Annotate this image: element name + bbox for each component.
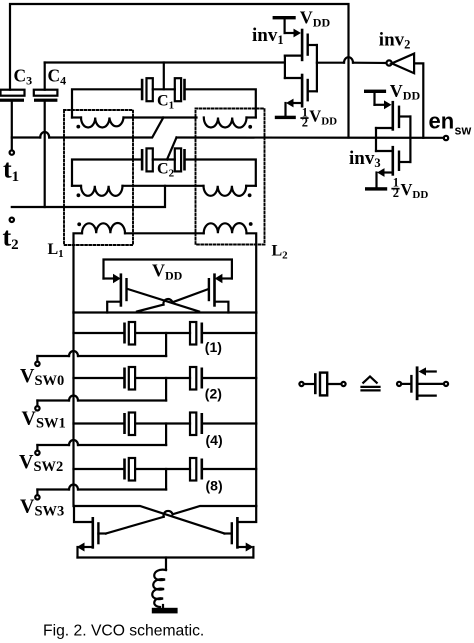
transistor inv1 NMOS — [286, 74, 317, 116]
wire inv3 gate bar — [376, 128, 392, 151]
terminal t1 — [10, 150, 14, 154]
wire C2 mid diagonal up to inv3 wire — [167, 138, 177, 160]
dotted box inductor L1 — [64, 110, 133, 245]
svg-text:C3: C3 — [14, 66, 33, 88]
dotted box inductor L2 — [196, 109, 265, 245]
wire inv1 output vertical — [316, 45, 318, 91]
wire VSW2 feed with hop — [37, 440, 166, 451]
svg-text:VSW0: VSW0 — [20, 365, 64, 389]
switched capacitor row 1 — [74, 322, 257, 356]
inductor tank1 left coil — [72, 118, 197, 128]
node dot tank2 right — [248, 193, 252, 197]
wire C2 to inv3 input and en_sw — [177, 136, 444, 139]
node dot row3 right — [249, 222, 253, 226]
svg-text:VDD: VDD — [390, 81, 421, 103]
wire inv1 output with hop over top-border vertical — [317, 57, 387, 63]
inductor tank2 right coil — [204, 186, 256, 196]
svg-text:VDD: VDD — [300, 8, 331, 30]
label half VDD inv3 — [391, 176, 428, 201]
wire tail down — [165, 558, 167, 571]
transistor inv3 NMOS — [377, 146, 411, 187]
wire top border from C3 up and across to right — [10, 4, 349, 138]
transistor M4 NMOS right of bottom cross-coupled pair — [224, 506, 256, 558]
ground — [152, 605, 178, 613]
wire inv2 to en_sw line — [414, 63, 423, 137]
label en_sw — [429, 108, 472, 137]
svg-text:(4): (4) — [206, 432, 223, 448]
capacitor C2 — [141, 148, 186, 171]
supply half-VDD bar inv1 — [275, 116, 296, 119]
wire C4 to inv1 input — [45, 61, 285, 63]
wire cross-couple ascending diagonal with hop — [137, 289, 209, 312]
node dot row3 left — [77, 222, 81, 226]
legend MOS varactor symbol — [397, 366, 448, 400]
svg-text:(8): (8) — [206, 478, 223, 494]
svg-text:C2: C2 — [157, 161, 175, 180]
wire C1 mid up to input wire — [163, 63, 165, 90]
inductor tank2 left coil — [72, 186, 204, 196]
wire cap-bank right rail — [255, 313, 257, 507]
svg-text:VSW3: VSW3 — [20, 496, 64, 520]
terminal VSW2 — [35, 451, 39, 455]
svg-text:t2: t2 — [3, 223, 19, 254]
svg-text:en: en — [429, 108, 455, 133]
svg-text:Fig. 2. VCO schematic.: Fig. 2. VCO schematic. — [43, 623, 204, 640]
node dot tank1 left — [76, 125, 80, 129]
inductor tail coil — [152, 570, 166, 607]
switched capacitor row 3 — [74, 413, 257, 446]
transistor inv1 PMOS — [285, 19, 317, 61]
inductor tank1 right coil — [204, 118, 256, 128]
symbol equivalence — [362, 377, 380, 391]
terminal VSW1 — [35, 406, 39, 410]
svg-text:VSW2: VSW2 — [19, 451, 63, 475]
svg-text:(2): (2) — [205, 386, 222, 402]
supply half-VDD bar inv3 — [365, 187, 387, 190]
svg-text:sw: sw — [455, 123, 472, 137]
svg-text:(1): (1) — [205, 339, 222, 355]
capacitor C1 — [141, 78, 186, 101]
node dot tank1 right — [248, 125, 252, 129]
wire VDD box of cross-coupled PMOS pair — [104, 260, 232, 279]
capacitor C4 — [34, 63, 58, 208]
wire t1 horizontal with hop over C4 lead, diagonal up to tank1 center — [12, 118, 164, 138]
wire core rail below PMOS pair — [74, 311, 257, 313]
svg-text:inv2: inv2 — [379, 30, 411, 52]
inductor row3 left coil — [74, 223, 204, 312]
wire VSW0 feed with hop — [37, 351, 166, 361]
terminal VSW3 — [35, 495, 39, 499]
svg-text:VDD: VDD — [152, 261, 183, 283]
wire bottom source rail — [78, 556, 254, 558]
wire inv3 output vertical — [409, 117, 411, 163]
terminal t2 — [10, 218, 14, 222]
switched capacitor row 4 — [74, 458, 257, 490]
wire cap-bank left rail — [72, 313, 74, 507]
inverter inv2 triangle — [392, 54, 414, 74]
svg-text:inv1: inv1 — [252, 25, 284, 47]
wire bottom cross-couple: left gate to right drain with hop — [106, 506, 256, 534]
label half VDD inv1 — [300, 106, 337, 130]
capacitor C3 — [0, 90, 25, 151]
svg-text:L1: L1 — [48, 241, 64, 260]
inverter inv2 bubble — [387, 60, 392, 65]
terminal en_sw — [444, 136, 448, 140]
svg-text:VDD: VDD — [401, 180, 429, 201]
svg-text:C4: C4 — [48, 66, 67, 88]
wire t2 horizontal to tank2 center tap — [12, 186, 165, 207]
transistor M1 PMOS left of cross-coupled pair — [104, 273, 128, 312]
svg-text:VDD: VDD — [309, 107, 337, 128]
tank1 rail — [72, 89, 256, 117]
terminal VSW0 — [35, 362, 39, 366]
svg-text:VSW1: VSW1 — [22, 408, 66, 432]
node dot tank2 left — [77, 193, 81, 197]
switched capacitor row 2 — [74, 367, 257, 401]
wire cross-couple descending diagonal — [128, 289, 199, 312]
legend capacitor symbol — [299, 373, 345, 396]
wire VSW3 feed with hop — [37, 485, 166, 496]
supply VDD bar inv3 — [364, 90, 386, 93]
wire bottom cross-couple: left drain to right gate — [74, 506, 224, 534]
svg-text:L2: L2 — [272, 243, 289, 262]
inductor row3 right coil — [204, 223, 257, 312]
wire VSW1 feed with hop — [37, 396, 166, 407]
supply VDD bar inv1 — [273, 16, 296, 19]
transistor inv3 PMOS — [375, 93, 411, 131]
svg-text:t1: t1 — [3, 155, 19, 186]
tank2 rail — [72, 160, 256, 186]
wire inv1 gate bar — [285, 56, 301, 78]
transistor M3 NMOS left of bottom cross-coupled pair — [74, 506, 106, 558]
transistor M2 PMOS right of cross-coupled pair — [208, 273, 232, 312]
svg-text:C1: C1 — [157, 93, 174, 112]
